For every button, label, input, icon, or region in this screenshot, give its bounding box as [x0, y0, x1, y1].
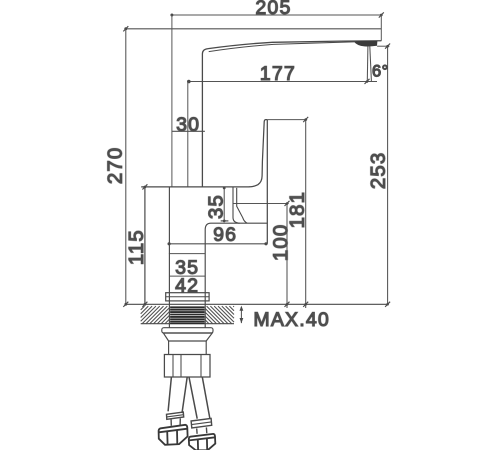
svg-text:MAX.40: MAX.40 [253, 309, 330, 331]
threaded shank section [170, 307, 204, 323]
wire 6deg reference vertical [366, 46, 369, 81]
right hose inner edge [202, 377, 210, 418]
wire 35/42 separator line [169, 275, 205, 277]
left hose inner edge [182, 377, 187, 413]
svg-text:30: 30 [176, 114, 200, 136]
shank right edge with rounded top corner, flange top edge [205, 223, 267, 327]
svg-text:205: 205 [255, 0, 291, 19]
wire extension line left of 205 down to body [171, 15, 173, 187]
tick 270 bottom [124, 303, 127, 306]
left hose lower tube [171, 418, 180, 425]
svg-text:6°: 6° [372, 62, 389, 80]
svg-text:42: 42 [175, 275, 199, 297]
tick 205 left [170, 14, 173, 17]
knurl line 4 [200, 355, 202, 378]
left hex nut [159, 425, 188, 445]
countertop hatch right [205, 306, 234, 324]
knurl line 2 [180, 355, 182, 378]
aerator dark band [354, 41, 377, 47]
wire 35 box top line [169, 253, 205, 255]
tick 100 bottom [285, 302, 290, 307]
knurled lock nut [164, 355, 210, 378]
arrow MAX.40 up [240, 306, 244, 311]
wire dimension line 35 cartridge [223, 188, 225, 221]
tick 253 bottom [385, 302, 390, 307]
tick 96 right [264, 242, 267, 245]
shank left edge [168, 187, 170, 327]
tick 177 right [365, 79, 370, 84]
spout top lower line [209, 42, 358, 52]
tick 96 left [167, 242, 170, 245]
right hex nut [189, 434, 216, 450]
countertop surface line [125, 303, 387, 305]
base top edge [141, 186, 249, 188]
knurl line 1 [172, 355, 174, 378]
cartridge wedge edge [237, 188, 248, 223]
tick 35 top [223, 187, 226, 190]
wire 100 top extension [233, 203, 288, 205]
tick 205 right [379, 12, 384, 17]
svg-text:177: 177 [260, 63, 296, 85]
right hose collar [191, 418, 212, 428]
right hose lower tube [197, 427, 207, 433]
wire dimension line 177 [188, 81, 377, 83]
left hose outer edge [168, 377, 171, 411]
wire 253 top extension [377, 45, 389, 47]
wire dimension line 270 [125, 29, 127, 305]
tick 253 top [385, 44, 390, 49]
wire dimension line 205 [172, 14, 381, 16]
svg-text:100: 100 [269, 224, 292, 262]
tick 100 top [285, 201, 290, 206]
wire dimension line 30 vertical [187, 82, 189, 187]
countertop bottom line [141, 323, 234, 325]
wire dimension line 100 [286, 204, 288, 309]
handle top edge and left edge with bottom fillet [249, 120, 267, 187]
tick 181 bottom [303, 302, 308, 307]
right hose outer edge [189, 377, 197, 419]
base left edge (115 dimension line collinear) [144, 187, 146, 304]
tick 181 top [303, 117, 308, 122]
wire top reference line at spout tip level [126, 28, 382, 30]
flange plate mid line [166, 296, 209, 298]
countertop hatch left [141, 306, 170, 324]
tick 270 top [124, 27, 127, 30]
cone taper piece [163, 333, 212, 341]
svg-text:96: 96 [213, 224, 237, 246]
cartridge rear edge [233, 187, 240, 223]
wire extension line right of 205 down to spout tip [380, 15, 382, 41]
node dot 177 left end [187, 80, 191, 84]
wire MAX.40 arrow line [240, 307, 242, 323]
wire 181 top extension [267, 119, 307, 121]
handle right edge [266, 120, 268, 244]
arrow MAX.40 down [240, 318, 244, 323]
svg-text:253: 253 [367, 152, 390, 190]
wire 30 bottom extension [172, 130, 205, 132]
wire dimension line 96 [169, 243, 266, 245]
tick 115 top [144, 186, 147, 189]
washer under counter [162, 328, 213, 333]
connector straight section left [168, 341, 170, 355]
wire 6deg slanted line [370, 46, 372, 81]
connector straight section right [205, 341, 207, 355]
svg-text:270: 270 [104, 147, 127, 185]
tick 35 bottom [223, 220, 226, 223]
left hose collar [167, 412, 184, 419]
wire dimension line 181 [305, 120, 307, 308]
wire dimension line 253 [387, 46, 389, 304]
mounting flange plate [166, 293, 209, 301]
spout riser left edge with rounded top corner, spout top upper line [202, 41, 381, 187]
tick 115 bottom [144, 303, 147, 306]
